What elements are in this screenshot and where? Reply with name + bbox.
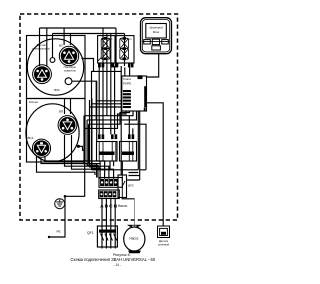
svg-text:PE: PE — [57, 230, 61, 234]
svg-text:Хроновой: Хроновой — [148, 26, 163, 30]
svg-text:Насос: Насос — [118, 204, 128, 208]
svg-text:C: C — [109, 204, 113, 210]
svg-text:Котел: Котел — [29, 100, 39, 104]
svg-text:РУ/РЕ: РУ/РЕ — [123, 81, 131, 85]
svg-text:температуры: температуры — [32, 47, 50, 51]
svg-text:ВП: ВП — [59, 110, 63, 114]
svg-text:блок: блок — [153, 30, 160, 34]
svg-text:- 14 -: - 14 - — [114, 263, 121, 267]
svg-text:уличный: уличный — [158, 243, 170, 247]
svg-text:В3: В3 — [59, 44, 63, 48]
svg-text:A: A — [100, 204, 104, 210]
svg-text:зователь: зователь — [64, 69, 76, 73]
svg-text:QF1: QF1 — [87, 231, 94, 235]
svg-text:Схема подключения ЗВАН UNIVERS: Схема подключения ЗВАН UNIVERSAL - 60 — [70, 257, 155, 262]
svg-text:ВХ6: ВХ6 — [54, 88, 60, 92]
svg-text:QF2: QF2 — [128, 184, 134, 188]
svg-text:Насос: Насос — [129, 237, 138, 241]
svg-text:B: B — [105, 204, 109, 210]
svg-text:ВС2: ВС2 — [28, 136, 34, 140]
